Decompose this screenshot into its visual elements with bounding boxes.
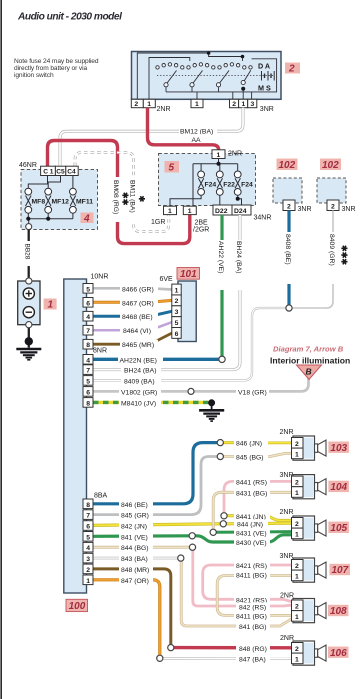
svg-text:1: 1 — [175, 287, 179, 294]
svg-text:103: 103 — [330, 443, 347, 454]
svg-text:/2GR: /2GR — [193, 226, 209, 233]
svg-text:C4: C4 — [67, 169, 76, 176]
svg-text:848 (MR): 848 (MR) — [121, 567, 149, 574]
splice circle 847 — [157, 655, 163, 661]
svg-text:2: 2 — [134, 101, 138, 108]
svg-text:2NR: 2NR — [280, 429, 294, 436]
component label 2 — [285, 63, 300, 75]
splice circle 8408/8409 — [286, 305, 292, 311]
fusebox 4 junction dots — [26, 217, 50, 221]
svg-text:4: 4 — [86, 314, 90, 321]
svg-text:102: 102 — [322, 160, 339, 171]
wire 8408 (BE) blue — [287, 211, 290, 306]
wire 848 (MR) brown unit pin2 down — [93, 569, 171, 644]
svg-text:107: 107 — [332, 565, 349, 576]
svg-text:3NR: 3NR — [298, 206, 312, 213]
wire 8431 (BG) beige from 104 pin1 down — [213, 492, 291, 529]
label 2NR (103) — [280, 429, 294, 436]
connector 102 left: label — [277, 159, 298, 172]
label 3NR (102 left) — [298, 206, 312, 213]
fusebox 4 connector pins C1 C5 C4 — [41, 166, 79, 175]
svg-text:BH24 (BA): BH24 (BA) — [124, 368, 156, 375]
svg-text:843 (BA): 843 (BA) — [121, 556, 148, 563]
wire 845 (BG) beige to 103 pin1 — [223, 453, 291, 456]
svg-text:846 (JN): 846 (JN) — [236, 441, 262, 448]
connector 101 pin boxes 1,2,3,5,6 — [172, 284, 181, 338]
label 3NR (102 right) — [342, 206, 356, 213]
label 2NR (105) — [280, 509, 294, 516]
svg-text:1: 1 — [295, 574, 299, 581]
component label 105 — [328, 522, 349, 534]
svg-text:2: 2 — [295, 646, 299, 653]
svg-text:5: 5 — [86, 534, 90, 541]
connector 105 body with speaker — [292, 516, 327, 540]
svg-text:MF8: MF8 — [32, 199, 46, 206]
svg-text:5: 5 — [169, 163, 175, 174]
svg-text:102: 102 — [279, 160, 296, 171]
label BM12 (BA) — [179, 126, 217, 136]
wire 8431 (VE) green stub to 105 pin1 — [216, 530, 291, 534]
svg-text:108: 108 — [330, 606, 347, 617]
svg-text:BH24 (BA): BH24 (BA) — [235, 241, 242, 273]
svg-text:8: 8 — [86, 400, 90, 407]
wire 8466 (GR) unit pin5 to 101 pin1 — [93, 288, 172, 289]
svg-text:✱: ✱ — [137, 196, 146, 203]
svg-text:8NR: 8NR — [93, 347, 107, 354]
connector 102 left dashed box — [273, 178, 302, 203]
svg-text:5: 5 — [86, 378, 90, 385]
label 2NR (108) — [280, 593, 294, 600]
svg-text:8466 (GR): 8466 (GR) — [122, 286, 154, 293]
svg-text:1: 1 — [195, 101, 199, 108]
svg-text:2: 2 — [232, 101, 236, 108]
svg-text:8464 (VI): 8464 (VI) — [123, 328, 151, 335]
group label 8BA — [94, 492, 108, 499]
wire 848 (RG) red to 106 pin2 — [174, 646, 292, 650]
wire BM08 (RG) red from fusebox C1 loop to fusebox 5 pin — [48, 141, 190, 244]
battery ground wire — [25, 328, 33, 348]
label 2NR (106) — [280, 635, 294, 642]
svg-text:1: 1 — [48, 300, 54, 311]
svg-text:6: 6 — [86, 300, 90, 307]
wire AH22N (BE) blue from unit pin 4 — [93, 358, 219, 361]
svg-text:8411 (BG): 8411 (BG) — [236, 573, 267, 580]
fusebox 5 junction dots — [217, 162, 240, 201]
wire 844 (BG) beige unit pin4 — [93, 546, 189, 549]
labels right-side wire names — [234, 438, 270, 663]
wire 847 (BA) white to 106 pin1 — [163, 657, 292, 660]
svg-text:4: 4 — [83, 213, 90, 224]
label 3NR (switch right connector) — [260, 106, 274, 113]
label M8410 (JV) — [119, 398, 161, 407]
svg-text:105: 105 — [330, 523, 347, 534]
wire 844 (JN) yellow to 105 pin2 — [226, 522, 291, 526]
label 8408 (BE) vertical — [284, 232, 294, 284]
label 2NR (fusebox 5 top) — [228, 151, 242, 158]
svg-text:✱✱: ✱✱ — [120, 192, 129, 206]
svg-text:1GR: 1GR — [151, 219, 165, 226]
svg-text:1: 1 — [295, 657, 299, 664]
label 46NR — [19, 162, 37, 169]
wire V1802 (GR) / V18 (GR) from unit pin 6 to triangle B — [93, 377, 309, 391]
ground symbol (battery) — [16, 349, 41, 360]
svg-text:2: 2 — [331, 203, 335, 210]
svg-text:2NR: 2NR — [280, 635, 294, 642]
svg-text:2: 2 — [175, 298, 179, 305]
wire 846 (BE) blue unit pin8 up to splice — [93, 443, 217, 504]
wire BM11 (BA) dashed from fusebox C4 to fusebox 5 pin 1GR — [75, 153, 169, 232]
label BB28 vertical — [24, 241, 34, 266]
fuse MF12 — [45, 188, 52, 213]
switch unit U2 body — [132, 52, 282, 100]
svg-text:2: 2 — [287, 203, 291, 210]
svg-text:2: 2 — [295, 521, 299, 528]
svg-text:AA: AA — [192, 137, 202, 144]
svg-text:7: 7 — [86, 328, 90, 335]
svg-text:3NR: 3NR — [260, 106, 274, 113]
label 6VE — [160, 276, 174, 283]
fuse labels MF8 MF12 MF11 — [32, 199, 94, 206]
component label 108 — [328, 605, 349, 617]
svg-text:846 (BE): 846 (BE) — [121, 502, 148, 509]
svg-text:8441 (RS): 8441 (RS) — [236, 480, 267, 487]
component label 5 — [165, 161, 180, 174]
connector 108 body with speaker — [292, 599, 327, 623]
fusebox 5 top pin 1 — [212, 150, 225, 159]
svg-text:842 (RS): 842 (RS) — [239, 605, 266, 612]
svg-text:104: 104 — [330, 482, 347, 493]
label V1802 (GR) — [119, 387, 161, 396]
label 2NR (switch left connector) — [157, 106, 171, 113]
switch unit U2 contact circles and levers — [156, 63, 252, 87]
wire 841 (BG) beige from 843 splice to 108 pin1 — [181, 561, 291, 626]
svg-text:8409 (GR): 8409 (GR) — [328, 234, 335, 266]
svg-text:M8410 (JV): M8410 (JV) — [121, 400, 156, 407]
svg-text:2NR: 2NR — [157, 106, 171, 113]
asterisks *** for 8409 — [340, 245, 349, 265]
svg-text:BM11 (BA): BM11 (BA) — [129, 180, 136, 213]
svg-text:8409 (BA): 8409 (BA) — [124, 378, 155, 385]
svg-text:8BA: 8BA — [94, 492, 108, 499]
svg-text:Note fuse 24 may be supplied: Note fuse 24 may be supplied — [14, 58, 99, 65]
switch unit U2 middle connector pin 1 — [191, 99, 203, 108]
fuse MF11 — [70, 188, 77, 213]
fusebox 5 dashed enclosure — [159, 154, 256, 206]
svg-text:2NR: 2NR — [280, 509, 294, 516]
label BM08 (RG) vertical — [112, 177, 122, 222]
svg-text:8421 (RS): 8421 (RS) — [236, 563, 267, 570]
wire BH24 (BA) white from fusebox D24 to unit pin 7 — [93, 215, 240, 370]
svg-text:M S: M S — [258, 84, 271, 93]
unit pin boxes 8BA group 8,7,6,5,4,3,2,1 — [83, 499, 93, 585]
splice circle 842/844 — [220, 521, 226, 527]
svg-text:1: 1 — [295, 532, 299, 539]
unit pin boxes 10NR group 5,6,4,7,8 — [83, 284, 93, 350]
connector 102 left pin 2 — [283, 200, 295, 211]
wire 8464 (VI) unit pin7 to 101 pin5 — [93, 322, 172, 330]
arrow B triangle — [297, 365, 322, 380]
connector 101 outer body — [178, 281, 196, 342]
svg-text:847 (OR): 847 (OR) — [121, 578, 149, 585]
svg-text:5: 5 — [86, 286, 90, 293]
splice circle 846 — [217, 440, 223, 446]
wire AA red from switch pin 1 (left) to fusebox 5 pin 1 — [148, 108, 219, 150]
connector 102 right dashed box — [317, 178, 346, 203]
splice circle 845 — [217, 453, 223, 459]
wire 842 (JN) yellow unit pin6 — [93, 524, 220, 526]
wire AH22 (VE) green from fusebox D22 down — [220, 215, 223, 356]
svg-text:8467 (OR): 8467 (OR) — [122, 300, 154, 307]
svg-text:6VE: 6VE — [160, 276, 174, 283]
wire 8441 (JN) yellow from splice to 105 pin2 — [227, 516, 291, 521]
svg-text:106: 106 — [330, 648, 347, 659]
svg-text:2: 2 — [295, 604, 299, 611]
splice circle AH22N/AH22 — [219, 356, 225, 362]
label 8409 (GR) vertical — [328, 232, 338, 284]
wire 841 (VE) green unit pin5 with S-curve to 105 pin1 — [93, 535, 292, 542]
inline connector circle V1802 — [188, 388, 194, 394]
svg-text:8468 (BE): 8468 (BE) — [122, 314, 153, 321]
asterisk * for BM11 — [137, 196, 146, 203]
svg-text:ignition switch: ignition switch — [14, 72, 54, 79]
svg-text:2: 2 — [295, 480, 299, 487]
splice circle 844 — [189, 544, 195, 550]
fusebox 5 bottom pins D22 D24 — [213, 205, 251, 215]
svg-text:8408 (BE): 8408 (BE) — [284, 234, 291, 265]
title — [17, 12, 122, 23]
wire 842 (RS) pink from 844 splice to 108 pin2 — [193, 550, 292, 606]
svg-text:2NR: 2NR — [228, 151, 242, 158]
svg-text:BB28: BB28 — [24, 244, 31, 260]
svg-text:F24: F24 — [205, 181, 217, 188]
svg-text:8430 (VE): 8430 (VE) — [236, 540, 267, 547]
unit pin boxes 8NR group 4,7,5,6,8 — [83, 355, 93, 408]
svg-text:V18 (GR): V18 (GR) — [238, 389, 267, 396]
svg-text:Diagram 7, Arrow B: Diagram 7, Arrow B — [273, 345, 344, 354]
svg-text:8465 (MR): 8465 (MR) — [122, 342, 154, 349]
labels 1GR 2BE/2GR 34NR — [151, 215, 271, 234]
svg-text:5: 5 — [175, 320, 179, 327]
svg-text:6: 6 — [175, 331, 179, 338]
fusebox 5 internal wires — [170, 159, 242, 207]
component label 101 — [177, 268, 200, 280]
wire 846 (JN) yellow to 103 pin2 — [223, 441, 291, 444]
component label 103 — [328, 442, 349, 454]
svg-text:845 (BG): 845 (BG) — [236, 455, 264, 462]
component label 100 — [66, 599, 88, 612]
svg-text:C 1: C 1 — [43, 169, 54, 176]
connector 102 right: label — [320, 159, 341, 172]
svg-text:8: 8 — [86, 342, 90, 349]
svg-text:4: 4 — [86, 545, 90, 552]
svg-text:844 (JN): 844 (JN) — [237, 522, 263, 529]
group label 10NR — [91, 273, 109, 280]
fusebox 5 bottom pins 1,1 — [164, 206, 197, 215]
svg-text:1: 1 — [147, 101, 151, 108]
svg-text:6: 6 — [86, 389, 90, 396]
svg-text:842 (JN): 842 (JN) — [121, 524, 147, 531]
component label 104 — [328, 481, 349, 493]
wire 8409 (GR) gray from 102 right — [292, 211, 333, 309]
connector circle below fusebox 4 — [26, 224, 32, 230]
fuse MF8 — [25, 188, 32, 213]
svg-text:3: 3 — [86, 556, 90, 563]
group label 8NR — [93, 347, 107, 354]
wire 8409 (BA) from splice to unit pin 5 — [93, 308, 286, 380]
switch unit U2 left connector pins 2,1 — [131, 99, 155, 108]
svg-text:3: 3 — [251, 101, 255, 108]
svg-text:2: 2 — [288, 64, 295, 75]
switch unit U2 internal wiring — [137, 53, 276, 99]
wire 847 (OR) orange unit pin1 down — [93, 580, 160, 655]
svg-text:6: 6 — [86, 524, 90, 531]
svg-text:Audio unit - 2030 model: Audio unit - 2030 model — [17, 12, 122, 23]
svg-text:101: 101 — [180, 269, 197, 280]
connector 103 body with speaker — [292, 436, 327, 460]
labels 8BA wires (left) — [119, 499, 153, 585]
wire 8468 (BE) unit pin4 to 101 pin3 — [93, 311, 172, 316]
label AH22N (BE) — [118, 355, 163, 364]
svg-text:845 (GR): 845 (GR) — [121, 513, 149, 520]
svg-text:1: 1 — [168, 208, 172, 215]
label AA — [191, 134, 205, 144]
fuse F22 (middle) — [216, 171, 223, 195]
svg-text:2: 2 — [86, 567, 90, 574]
label 3NR (107) — [280, 553, 294, 560]
text Interior illumination — [270, 356, 350, 366]
svg-text:7: 7 — [86, 368, 90, 375]
svg-text:3: 3 — [175, 309, 179, 316]
svg-text:D A: D A — [258, 62, 270, 71]
splice circle 841 — [189, 533, 195, 539]
svg-text:34NR: 34NR — [254, 215, 272, 222]
svg-text:F22: F22 — [223, 181, 235, 188]
svg-text:✱✱✱: ✱✱✱ — [340, 245, 349, 265]
svg-text:1: 1 — [188, 208, 192, 215]
text Diagram 7, Arrow B — [273, 345, 344, 354]
labels 10NR wires — [120, 284, 158, 349]
wire 8467 (OR) unit pin6 to 101 pin2 — [93, 300, 172, 302]
svg-text:1: 1 — [217, 152, 221, 159]
svg-text:1: 1 — [295, 452, 299, 459]
svg-text:D24: D24 — [234, 208, 247, 215]
connector 107 body with speaker — [292, 558, 327, 582]
svg-text:8411 (BG): 8411 (BG) — [236, 613, 267, 620]
asterisks ** for BM08 — [120, 192, 129, 206]
svg-text:8: 8 — [86, 502, 90, 509]
svg-text:2BE: 2BE — [195, 219, 209, 226]
label BH24 (BA) — [121, 365, 161, 374]
svg-text:4: 4 — [86, 357, 90, 364]
label BM11 (BA) vertical — [129, 177, 139, 222]
label BH24 (BA) vertical — [235, 240, 245, 290]
svg-text:C5: C5 — [56, 169, 65, 176]
svg-text:AH22 (VE): AH22 (VE) — [217, 241, 224, 273]
svg-text:2NR: 2NR — [280, 593, 294, 600]
svg-text:Interior illumination: Interior illumination — [270, 356, 350, 366]
svg-text:844 (BG): 844 (BG) — [121, 545, 149, 552]
svg-text:MF12: MF12 — [52, 199, 70, 206]
splice circle 848 — [168, 645, 174, 651]
svg-text:BM08 (RG): BM08 (RG) — [112, 180, 119, 214]
splice circle 8431 — [210, 529, 216, 535]
note text — [14, 58, 99, 79]
battery component 1 — [18, 278, 40, 328]
label AH22 (VE) vertical — [217, 240, 227, 290]
connector 102 right pin 2 — [327, 200, 339, 211]
wire 8441 (RS) pink from 104 pin2 down — [224, 481, 292, 512]
ground symbol (M8410) — [199, 399, 224, 421]
svg-text:848 (RG): 848 (RG) — [239, 646, 267, 653]
svg-text:AH22N (BE): AH22N (BE) — [120, 357, 157, 364]
svg-text:MF11: MF11 — [76, 199, 93, 206]
svg-text:F24: F24 — [241, 181, 253, 188]
svg-text:10NR: 10NR — [91, 273, 109, 280]
switch unit U2 D/A M/S battery symbol — [258, 62, 274, 93]
svg-text:1: 1 — [295, 614, 299, 621]
wire 843 (BA) white unit pin3 — [93, 557, 178, 560]
svg-text:8431 (BG): 8431 (BG) — [236, 490, 267, 497]
wire 845 (GR) gray unit pin7 up to splice — [93, 457, 217, 515]
svg-text:3NR: 3NR — [280, 553, 294, 560]
svg-text:1: 1 — [295, 490, 299, 497]
switch unit U2 right connector pins 2,1,3 — [230, 99, 257, 108]
wire BB28 black to battery — [28, 230, 30, 278]
component label 107 — [330, 564, 351, 576]
wire BM12 (BA) white from switch pin 1 to fusebox C5 — [60, 108, 243, 166]
svg-text:8431 (VE): 8431 (VE) — [236, 530, 267, 537]
svg-text:841 (BG): 841 (BG) — [239, 624, 267, 631]
wire 8421 (RS) pink linking 107 pin2 and 108 pin2 — [203, 565, 292, 602]
connector 104 body with speaker — [292, 475, 327, 499]
svg-text:847 (BA): 847 (BA) — [239, 657, 266, 664]
wire 8411 (BG) beige linking 107 pin1 and 108 pin1 — [217, 576, 291, 616]
wire M8410 (JV) ground wire — [93, 401, 208, 404]
svg-text:V1802 (GR): V1802 (GR) — [121, 389, 157, 396]
fusebox 4 internal wires — [28, 176, 73, 224]
svg-text:D22: D22 — [215, 208, 228, 215]
svg-text:2: 2 — [295, 441, 299, 448]
svg-text:7: 7 — [86, 513, 90, 520]
label 3NR (104) — [280, 472, 294, 479]
svg-text:1: 1 — [242, 101, 246, 108]
svg-text:1: 1 — [86, 578, 90, 585]
svg-text:2: 2 — [295, 563, 299, 570]
svg-text:100: 100 — [69, 601, 86, 612]
label 8409 (BA) — [121, 376, 161, 385]
frame left border — [0, 0, 2, 699]
splice circle 8441 — [221, 513, 227, 519]
connector 106 body with speaker — [292, 641, 327, 665]
svg-text:directly from battery or via: directly from battery or via — [14, 65, 87, 72]
svg-text:3NR: 3NR — [342, 206, 356, 213]
component label 106 — [328, 647, 349, 659]
svg-text:B: B — [306, 367, 312, 377]
component label 1 — [44, 299, 57, 311]
audio unit 100 body — [64, 279, 87, 593]
label V18 (GR) — [236, 387, 269, 396]
fusebox 4 dashed enclosure — [21, 170, 98, 230]
svg-text:841 (VE): 841 (VE) — [121, 534, 148, 541]
svg-text:46NR: 46NR — [19, 162, 37, 169]
component label 4 — [81, 213, 94, 225]
fuse labels F24 F22 F24 — [205, 181, 254, 188]
switch unit U2 junction dots — [207, 51, 245, 90]
wire 8465 (MR) unit pin8 to 101 pin6 — [93, 333, 172, 344]
splice circle 843 — [178, 555, 184, 561]
fuse F24 (right) — [234, 171, 241, 195]
fuse F24 (left) — [198, 171, 205, 195]
